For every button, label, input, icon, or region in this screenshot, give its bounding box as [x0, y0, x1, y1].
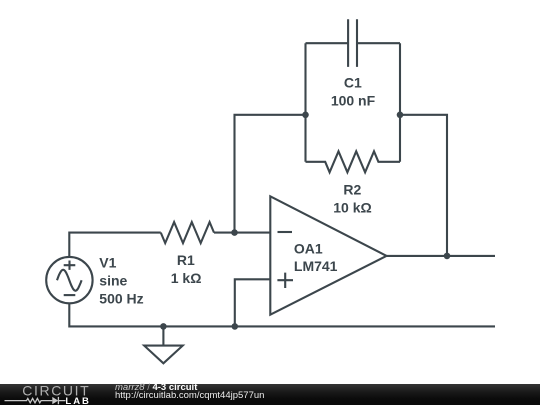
resistor R1	[161, 222, 214, 243]
svg-text:1 kΩ: 1 kΩ	[171, 270, 202, 286]
svg-text:100 nF: 100 nF	[331, 92, 376, 108]
op-amp plus input marker	[277, 273, 293, 288]
V1 plus polarity mark	[64, 261, 76, 270]
node: output junction	[444, 253, 451, 260]
capacitor C1 plates	[348, 19, 357, 67]
wire: feedback right vertical	[399, 43, 401, 162]
wire: op-amp output	[387, 255, 496, 257]
footer title text	[115, 383, 197, 393]
resistor R2	[306, 151, 401, 172]
node: inverting input junction	[231, 229, 238, 236]
svg-text:500 Hz: 500 Hz	[99, 291, 143, 307]
op-amp OA1 triangle	[270, 196, 386, 314]
svg-text:R1: R1	[177, 252, 195, 268]
wire: V1 top to R1	[69, 233, 161, 257]
svg-text:sine: sine	[99, 273, 127, 289]
wire: feedback left vertical	[304, 43, 306, 162]
node: feedback left junction	[302, 112, 309, 119]
node: feedback right junction	[397, 112, 404, 119]
wire: inverting node up and right to feedback block	[235, 115, 306, 233]
node: ground junction	[160, 323, 167, 330]
V1 sine symbol	[57, 270, 82, 291]
wire: C1 right lead	[357, 42, 400, 44]
wire: bottom rail	[69, 303, 495, 326]
ground triangle	[144, 346, 183, 364]
op-amp minus input marker	[278, 231, 293, 233]
footer bar	[0, 384, 540, 405]
wire: non-inverting input to bottom rail	[235, 279, 270, 326]
logo resistor zigzag wire	[5, 398, 53, 402]
node: non-inverting bottom junction	[232, 323, 239, 330]
logo diode cathode bar and wire	[58, 397, 65, 404]
svg-text:LAB: LAB	[65, 396, 91, 405]
ground stem	[162, 326, 164, 345]
svg-text:C1: C1	[344, 75, 362, 91]
svg-text:V1: V1	[99, 255, 116, 271]
svg-text:OA1: OA1	[294, 240, 323, 256]
logo diode triangle	[52, 397, 58, 404]
wire: feedback to output	[400, 115, 447, 256]
svg-text:R2: R2	[343, 181, 361, 197]
wire: R1 to op-amp inverting input	[214, 232, 270, 234]
svg-text:10 kΩ: 10 kΩ	[333, 200, 371, 216]
wire: C1 left lead	[306, 42, 349, 44]
footer url text	[115, 391, 264, 401]
V1 minus polarity mark	[64, 294, 76, 296]
CircuitLab logo	[0, 384, 110, 405]
voltage source V1 circle	[46, 257, 92, 303]
svg-text:LM741: LM741	[294, 258, 338, 274]
